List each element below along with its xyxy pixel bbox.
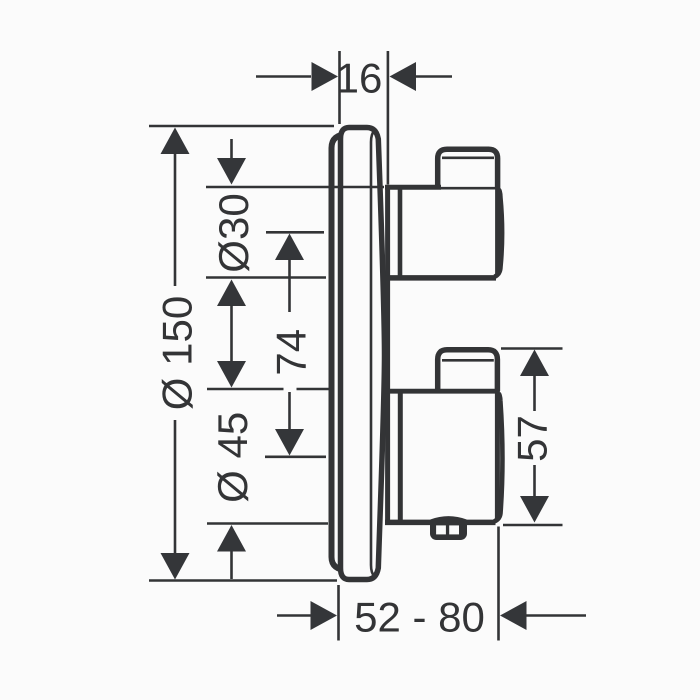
dimension D30 bottom extension line <box>206 276 326 279</box>
svg-text:16: 16 <box>336 54 383 101</box>
dimension 52-80 label <box>354 593 485 640</box>
bottom handle clip tab <box>430 519 467 541</box>
dimension 74 label <box>267 329 314 376</box>
dimension 57 top arrow <box>520 350 549 412</box>
dimension D30 top extension line <box>206 186 384 189</box>
dimension 74 top arrow <box>275 234 304 313</box>
dimension 57 top extension line <box>501 347 563 350</box>
dimension D30 label <box>210 193 257 272</box>
svg-text:57: 57 <box>509 415 556 462</box>
dimension D150 top extension line <box>149 125 334 128</box>
dimension 16 label <box>336 54 383 101</box>
svg-text:Ø 45: Ø 45 <box>209 412 256 503</box>
dimension 16 left extension line <box>338 51 341 124</box>
dimension D45 label <box>209 412 256 503</box>
bottom handle body <box>385 391 502 522</box>
dimension 74 bottom arrow <box>275 392 304 456</box>
dimension 52-80 right extension line <box>497 527 500 641</box>
top handle grip cap <box>438 149 498 188</box>
dimension 57 bottom extension line <box>503 524 563 527</box>
dimension 52-80 left arrow <box>277 601 337 630</box>
svg-text:Ø30: Ø30 <box>210 193 257 272</box>
front plate face edge line <box>371 131 375 577</box>
dimension 16 right arrow <box>390 62 453 91</box>
dimension D150 bottom extension line <box>149 579 337 582</box>
dimension D150 top arrow <box>161 128 190 287</box>
dimension 52-80 right arrow <box>500 601 586 630</box>
svg-text:74: 74 <box>267 329 314 376</box>
dimension D150 label <box>153 296 200 410</box>
dimension D45 bottom arrow <box>217 525 246 579</box>
valve body edge / handle stub column <box>385 186 390 525</box>
bottom handle grip front edge <box>495 391 500 520</box>
top handle grip front edge <box>495 188 500 276</box>
escutcheon front plate (side view, 16mm deep) <box>341 128 385 580</box>
top handle body <box>385 187 502 278</box>
dimension D45 top extension line <box>207 388 331 391</box>
dimension 57 bottom arrow <box>520 465 549 523</box>
dimension D45 top arrow <box>217 361 246 388</box>
svg-text:52 - 80: 52 - 80 <box>354 593 485 640</box>
dimension 74 bottom extension line <box>265 455 326 458</box>
dimension 16 right extension line <box>387 51 390 185</box>
bottom handle grip cap <box>438 350 498 391</box>
dimension 16 left arrow <box>256 62 338 91</box>
dimension D30 bottom arrow <box>217 280 246 362</box>
svg-text:Ø 150: Ø 150 <box>153 296 200 410</box>
dimension 74 top extension line <box>266 231 324 234</box>
dimension 52-80 left extension line <box>337 585 340 641</box>
dimension D30 top arrow <box>217 139 246 185</box>
dimension 57 label <box>509 415 556 462</box>
dimension D150 bottom arrow <box>161 420 190 580</box>
escutcheon back plate (side view) <box>332 134 349 570</box>
bottom handle clip bump <box>431 518 466 521</box>
dimension D45 bottom extension line <box>207 522 328 525</box>
